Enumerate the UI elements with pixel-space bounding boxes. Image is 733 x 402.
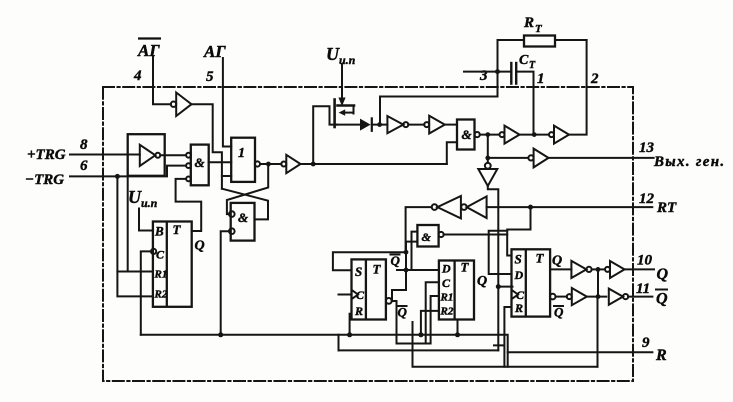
svg-text:и.п: и.п [141,196,158,210]
wire D2 to D3 [408,124,424,126]
svg-text:8: 8 [80,137,88,153]
wire U to T1 B input [139,209,153,231]
label RT [523,15,543,35]
inverter inside A1 [140,145,161,166]
svg-text:R: R [655,347,667,364]
svg-text:11: 11 [636,281,650,297]
buffer D19 pin11 driver (bubble out) [609,289,628,305]
svg-text:&: & [195,155,205,170]
buffer D3 (bubble on input) [424,116,445,134]
svg-text:D: D [441,262,451,276]
svg-text:6: 6 [80,158,88,174]
svg-text:T: T [173,222,182,237]
wire T3 D input loop [489,231,512,274]
wire D8 output down long clock line [488,186,499,350]
wire pin5 AG vertical to OR gate top input [223,58,231,147]
wire T3 Q to buffer D16 [550,268,571,270]
svg-text:U: U [128,187,142,207]
svg-text:R2: R2 [154,289,168,301]
label U supply internal [128,187,158,210]
svg-text:5: 5 [206,69,214,85]
resistor RT [524,36,555,47]
svg-text:3: 3 [479,68,488,84]
wire D6 output up pin 2 line [569,40,587,135]
node junction diode/feedback [377,122,382,127]
wire D18 to D19 cross node [587,296,607,298]
flip-flop T2 [352,259,386,319]
wire T4 bottom to rail [457,320,459,335]
wire T2 notQ bubble link [392,296,439,344]
node D10 out junction [266,162,271,167]
rail junction T4 R2 [418,332,423,337]
node pin12/divider junction [528,205,533,210]
wire latch AND out cross coupling up to D10 input [222,189,268,220]
capacitor CT plates [511,63,516,84]
svg-text:&: & [238,210,248,225]
node S-line junction [404,250,409,255]
svg-text:R1: R1 [440,292,454,304]
wire D4 output to node B [480,134,500,136]
svg-text:Т: Т [529,60,536,71]
AND gate D12 (latch) [231,203,255,241]
label U supply [326,44,356,67]
svg-text:Q: Q [656,291,668,308]
wire T2 R from rail [350,314,352,335]
wire pin 13 output [549,157,654,159]
wire T4 R2 from rail [421,311,439,335]
wire pin4 AG-bar vertical into buffer D1 [153,57,171,104]
label CT [519,53,536,71]
wire S-line from T2 S input [333,252,406,270]
wire pin 9 reset [508,351,653,353]
svg-text:АГ: АГ [137,41,160,60]
D15 output bubble [439,232,444,237]
AND gate D9 (trigger AND) [191,145,209,186]
wire node B down to out stage [487,135,489,163]
wire D4 lower input from main node line [447,142,457,164]
svg-text:R: R [514,301,523,315]
inverter D2 (bubble on output) [387,116,408,133]
T2 output bubble [386,298,392,304]
wire D15 output to S path vertical [444,234,508,236]
wire -TRG input with step to AND D9 middle input [70,166,186,177]
node A junction [311,162,316,167]
wire +TRG input to comparator [70,154,140,156]
rail junction latch [218,332,223,337]
svg-text:Q: Q [477,274,487,289]
buffer D18 (bubble in) [567,288,587,305]
buffer D6 (bubble input) [549,126,569,144]
wire D15 input1 from D-line [412,232,418,270]
chip boundary dash-dot border [103,87,633,381]
svg-text:2: 2 [590,71,599,87]
label AG-bar (inverted gating input) [137,39,161,61]
wire D9 output to OR gate [209,161,232,163]
rail junction T4 bottom [455,332,460,337]
T2 output label Q-bar bottom [398,305,408,320]
wire D3 to AND D4 [445,124,457,126]
svg-text:R1: R1 [154,269,168,281]
svg-text:R: R [354,304,363,318]
node D-line junction [404,268,409,273]
node B junction [485,132,490,137]
T2 output label Q-bar top [391,253,401,268]
buffer D17 pin10 driver (bubble in) [605,261,625,278]
wire D14 out left and down to S-line [406,207,432,252]
D12 input bubbles [229,211,235,234]
svg-text:C: C [156,248,165,262]
wire T3 notQ to buffer D18 [556,296,567,298]
wire T3 C input from clock [498,286,512,288]
wire D16 to D17 [592,268,605,270]
svg-text:1: 1 [537,71,545,87]
wire T1 C input to bottom rail [141,251,152,334]
inverter D8 (downward, clock driver) [478,163,497,186]
wire pin 11 [628,296,652,298]
wire cross vertical between rows down to lower line [597,269,600,366]
wire A1 out to AND D9 top input [160,154,186,156]
wire RT right leg to pin2 line [555,39,587,41]
wire clock return line [339,349,499,351]
buffer D16 (bubble out) [571,261,591,278]
AND gate D15 [417,225,438,247]
wire VT1 source hook to node A [313,106,337,164]
svg-text:C: C [442,276,451,290]
svg-text:D: D [514,268,524,282]
node -TRG junction [115,174,120,179]
svg-text:+TRG: +TRG [27,147,66,163]
wire branch into OR-gate lower input [222,175,231,177]
flip-flop T3 [512,249,551,316]
svg-text:−TRG: −TRG [25,172,64,188]
svg-text:C: C [519,53,529,68]
buffer D1 (AG-bar input buffer, bubble on input) [171,93,192,117]
svg-text:T: T [461,260,470,275]
label Q-bar out [656,290,668,308]
wire D10 out down to cross coupling [227,164,268,214]
svg-text:RT: RT [656,200,677,216]
wire cap right plate down pin1 line to node between D5/D6 [516,72,533,135]
svg-text:T: T [373,262,382,277]
wire to buffer D7 [488,157,529,159]
svg-text:&: & [422,230,432,244]
wire pin 10 [625,268,655,270]
inverter D13 (left-pointing) [461,196,486,218]
wire pin 12 RT line [487,206,653,208]
diode VD1 [360,118,372,130]
reset rail [141,335,508,367]
svg-text:Вых. ген.: Вых. ген. [653,154,725,170]
comparator box A1 [128,134,165,176]
wire diode to inverter D2 [372,124,388,126]
wire D12 lower input down to reset rail [221,231,229,335]
wire pin3 stub [464,71,510,73]
wire D15 input2 from S-line [392,242,417,301]
wire VT1 drain [335,124,360,126]
buffer D7 (pin13 driver, bubble input) [528,149,548,168]
svg-text:U: U [326,44,340,64]
wire D1 output down to latch node [192,104,222,189]
inverter D14 (left-pointing) [432,196,461,218]
wire D-line into T4 D input [397,269,439,271]
wire T1 Q up to D9 lower input [176,179,202,231]
svg-text:&: & [462,127,472,142]
wire comparator box down to T1 R1 [117,176,152,272]
svg-text:T: T [536,251,545,266]
buffer D5 (bubble input) [500,126,520,144]
wire RT node down to T3 S input [507,207,530,255]
node 3 junction [495,69,500,74]
flip-flop T1 control trigger [153,222,192,307]
wire T2 C input from clock return [339,295,352,351]
svg-text:1: 1 [238,146,245,161]
D10 output bubble [255,161,260,166]
svg-text:4: 4 [133,68,142,84]
svg-text:12: 12 [639,191,655,207]
svg-text:13: 13 [639,140,655,156]
wire D5 to D6 with pin1 junction [520,134,550,136]
wire T3 R input from below [494,307,512,367]
svg-text:Q: Q [552,254,562,269]
wire -TRG down to T1 resets [117,176,152,296]
svg-text:B: B [154,224,164,239]
T3 notQ output bubble [550,294,556,300]
svg-text:9: 9 [642,335,650,351]
svg-text:R2: R2 [440,306,454,318]
wire feedback from pin3 node down to diode node [380,72,498,125]
transistor VT1 (MOS current source) [335,100,354,128]
svg-text:S: S [515,252,522,267]
T3 output label Q-bar [554,305,564,320]
wire RT left leg to node 3 [498,40,525,72]
flip-flop T4 [439,261,474,320]
wire D10 out to buffer D11 [260,163,281,165]
wire T4 C input [426,282,439,343]
rail junction T2 R [347,332,352,337]
svg-text:10: 10 [637,253,653,269]
buffer D11 (bubble input) [281,155,300,173]
svg-text:Q: Q [657,266,669,283]
wire U supply arrow down to transistor VT1 [338,64,345,106]
AND gate D4 (oscillator gate) [457,120,480,150]
svg-text:Q: Q [195,239,205,254]
input bubbles D9 [186,153,191,182]
OR gate D10 [231,138,255,182]
svg-text:S: S [355,264,362,279]
wire D11 output main node line to D4 [301,163,447,165]
wire lower return line [413,322,598,367]
svg-text:Т: Т [535,23,543,35]
svg-text:R: R [523,15,534,31]
